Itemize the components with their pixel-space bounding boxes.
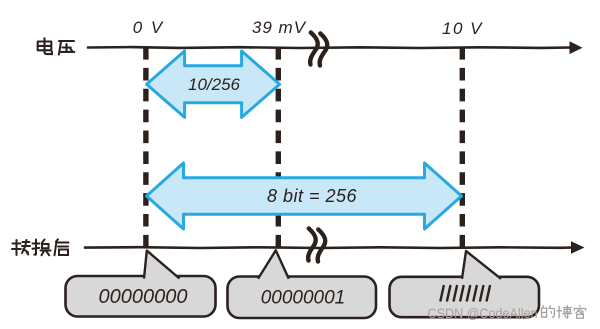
svg-text:00000001: 00000001 [261,288,346,309]
speech bubble 11111111 [390,277,540,317]
svg-text:39 mV: 39 mV [252,18,307,37]
svg-text:0 V: 0 V [133,18,165,37]
bottom axis line [85,246,572,249]
dashed line at 39 mV [276,47,281,247]
top axis arrowhead [570,41,583,54]
speech bubble 00000000 [66,276,216,317]
svg-text:CSDN @CodeAllen: CSDN @CodeAllen [428,305,538,321]
bubble 3 tail [461,251,503,280]
dashed line at 0 V [143,47,148,247]
big double arrow 8 bit = 256 [147,163,462,229]
bottom axis arrowhead [571,241,585,254]
axis break (bottom) [308,229,325,262]
bubble 2 tail [257,250,291,280]
small double arrow 10/256 [147,51,280,117]
speech bubble 00000001 [228,277,377,319]
svg-text:00000000: 00000000 [99,286,188,308]
svg-text:10 V: 10 V [442,19,483,38]
svg-text:8 bit = 256: 8 bit = 256 [267,186,358,206]
bubble 1 tail [144,251,182,280]
svg-text:10/256: 10/256 [188,75,241,94]
axis break (top) [310,33,327,66]
watermark 的博客 [542,305,586,318]
top axis line [88,46,571,50]
label 转换后 (after conversion) [12,239,69,255]
bubble 3 text: 11111111 as slashes [441,286,490,301]
label 电压 (voltage) [38,38,75,54]
dashed line at 10 V [460,47,465,247]
